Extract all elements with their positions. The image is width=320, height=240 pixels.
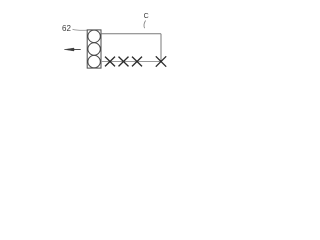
- svg-text:62: 62: [62, 24, 71, 33]
- top wire from frame to corner: [101, 33, 161, 35]
- cross X1: [105, 57, 115, 67]
- cross X2: [119, 57, 129, 67]
- roller circle bottom: [88, 55, 100, 67]
- cross X4 (terminal, larger): [156, 56, 166, 66]
- roller circle top: [88, 30, 100, 42]
- cross X3: [132, 57, 142, 67]
- leader line from C: [144, 21, 146, 29]
- roller circle middle: [88, 43, 100, 55]
- svg-text:C: C: [144, 13, 149, 20]
- arrow (direction of travel, pointing left): [64, 48, 80, 51]
- leader line from 62 to roller frame: [73, 29, 88, 30]
- vertical wire down from corner: [160, 34, 162, 62]
- roller frame rectangle: [87, 30, 101, 68]
- bottom wire with crosses: [101, 61, 162, 63]
